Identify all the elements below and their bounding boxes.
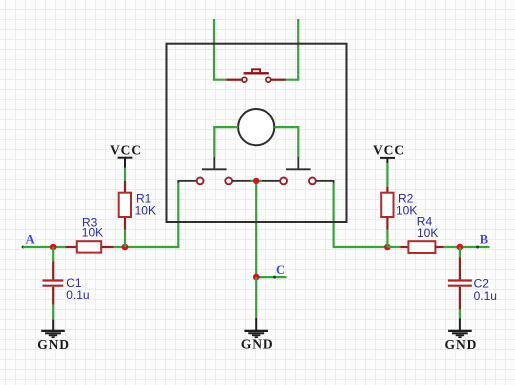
- wire: R2 to rail: [386, 230, 388, 247]
- svg-text:10K: 10K: [396, 204, 417, 218]
- svg-text:10K: 10K: [82, 226, 103, 240]
- wire: rail to R4: [387, 246, 400, 248]
- VCC symbol right: [380, 158, 395, 163]
- resistor R2 lead top: [386, 187, 388, 193]
- wire: VCC to R1: [124, 168, 126, 181]
- capacitor C1: [43, 281, 64, 286]
- resistor R2 lead bottom: [386, 217, 388, 230]
- wire: right exit down to B rail: [334, 183, 388, 247]
- VCC symbol left: [118, 158, 133, 168]
- wire: center junction down to node C: [255, 184, 257, 277]
- contact circle 2: [225, 178, 232, 185]
- junction: node B / C2 tap: [457, 244, 464, 251]
- left wiper contact: [202, 157, 227, 169]
- capacitor C2 lead bottom: [459, 287, 461, 310]
- junction: R2 bottom / rail: [384, 244, 391, 251]
- contact circle 4: [280, 178, 287, 185]
- junction: center contact: [253, 178, 259, 184]
- right wiper contact: [286, 157, 311, 169]
- capacitor C1 lead top: [52, 261, 54, 279]
- svg-text:10K: 10K: [417, 226, 438, 240]
- junction: node A / C1 tap: [50, 244, 57, 251]
- wire: contact 2 to center junction: [232, 180, 256, 182]
- wire: A to R3: [23, 246, 66, 248]
- pin end: terminal C: [273, 276, 276, 279]
- wire: top-left lead into push button: [214, 19, 226, 80]
- ground symbol right: [448, 331, 472, 337]
- terminal B pin end: [476, 246, 479, 249]
- terminal A pin end: [22, 246, 25, 249]
- svg-text:0.1u: 0.1u: [66, 288, 89, 302]
- ground symbol center: [244, 331, 268, 337]
- svg-text:VCC: VCC: [110, 142, 142, 157]
- svg-text:VCC: VCC: [373, 142, 405, 157]
- left ground lead: [52, 320, 54, 330]
- ground symbol left: [41, 331, 65, 337]
- resistor R2 body: [381, 193, 393, 217]
- push button switch: [242, 69, 271, 82]
- wire: top-right lead into push button: [286, 19, 298, 80]
- svg-text:GND: GND: [445, 337, 478, 352]
- rotary shaft circle: [238, 109, 274, 145]
- svg-text:B: B: [480, 232, 488, 246]
- right ground lead: [459, 319, 461, 331]
- resistor R4 body: [408, 241, 435, 253]
- encoder body outline: [167, 44, 347, 222]
- resistor R4 lead right: [435, 246, 443, 248]
- resistor R3 lead right: [101, 246, 113, 248]
- wire: green stub at center contact junction: [250, 180, 262, 182]
- wire: B junction to C2: [459, 247, 461, 258]
- wire: left exit down to A rail: [114, 183, 179, 247]
- svg-text:10K: 10K: [135, 204, 156, 218]
- junction: node C: [253, 274, 260, 281]
- resistor R1 lead top: [124, 181, 126, 193]
- wire: R4 to B: [444, 246, 490, 248]
- svg-text:A: A: [26, 232, 35, 246]
- contact circle 1: [197, 178, 204, 185]
- wire: contact 1 to left side exit: [178, 181, 197, 184]
- wire: contact 5 to right side exit: [316, 181, 334, 184]
- junction: R1 bottom / rail: [122, 244, 129, 251]
- center ground lead: [255, 318, 257, 330]
- svg-text:0.1u: 0.1u: [474, 289, 497, 303]
- svg-text:GND: GND: [37, 337, 70, 352]
- push button left pin: [226, 79, 241, 81]
- svg-text:GND: GND: [241, 337, 274, 352]
- push button right pin: [271, 79, 286, 81]
- resistor R4 lead left: [400, 246, 408, 248]
- wire: C1 to ground: [52, 305, 54, 320]
- wire: C2 to ground: [459, 309, 461, 318]
- resistor R1 body: [119, 193, 131, 217]
- resistor R3 body: [77, 241, 101, 252]
- capacitor C2: [448, 281, 472, 286]
- contact circle 5: [309, 178, 316, 185]
- wire: circle right to right wiper: [274, 127, 298, 157]
- resistor R3 lead left: [66, 246, 77, 248]
- node C wire: [256, 276, 286, 278]
- wire: center junction to contact 4: [256, 180, 280, 182]
- capacitor C1 lead bottom: [52, 287, 54, 305]
- svg-text:C: C: [276, 263, 285, 277]
- wire: VCC to R2: [386, 163, 388, 186]
- capacitor C2 lead top: [459, 258, 461, 280]
- wire: C1 top: [52, 247, 54, 261]
- wire: R1 to rail: [124, 230, 126, 247]
- wire: node C to center ground: [255, 277, 257, 318]
- wire: circle left to left wiper: [214, 127, 238, 157]
- resistor R1 lead bottom: [124, 217, 126, 230]
